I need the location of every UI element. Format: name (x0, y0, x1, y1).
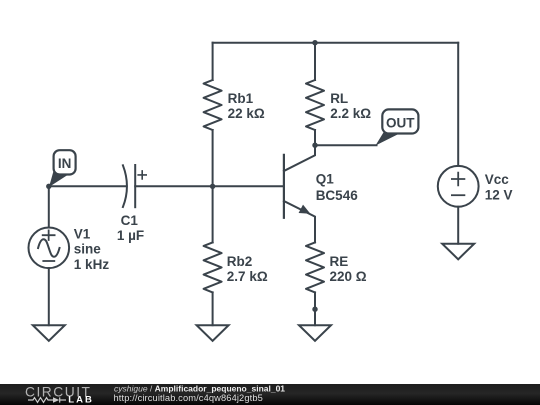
svg-text:OUT: OUT (386, 116, 415, 131)
svg-text:http://circuitlab.com/c4qw864j: http://circuitlab.com/c4qw864j2gtb5 (114, 393, 263, 403)
svg-text:22 kΩ: 22 kΩ (228, 106, 265, 121)
svg-text:Vcc: Vcc (485, 172, 510, 187)
svg-text:Rb1: Rb1 (228, 91, 254, 106)
svg-text:C1: C1 (121, 213, 139, 228)
svg-text:sine: sine (74, 242, 102, 257)
svg-text:BC546: BC546 (316, 188, 359, 203)
svg-text:IN: IN (58, 156, 72, 171)
svg-text:1 kHz: 1 kHz (74, 257, 110, 272)
svg-text:12 V: 12 V (485, 187, 513, 202)
svg-text:V1: V1 (74, 227, 91, 242)
svg-text:1 µF: 1 µF (117, 228, 144, 243)
svg-text:RE: RE (330, 254, 349, 269)
svg-text:Q1: Q1 (316, 171, 335, 186)
svg-text:RL: RL (330, 91, 348, 106)
svg-text:Rb2: Rb2 (227, 254, 253, 269)
svg-text:LAB: LAB (68, 395, 94, 405)
svg-text:cyshigue / Amplificador_pequen: cyshigue / Amplificador_pequeno_sinal_01 (114, 383, 285, 393)
svg-text:2.2 kΩ: 2.2 kΩ (330, 106, 371, 121)
svg-text:2.7 kΩ: 2.7 kΩ (227, 269, 268, 284)
svg-text:220 Ω: 220 Ω (330, 269, 367, 284)
